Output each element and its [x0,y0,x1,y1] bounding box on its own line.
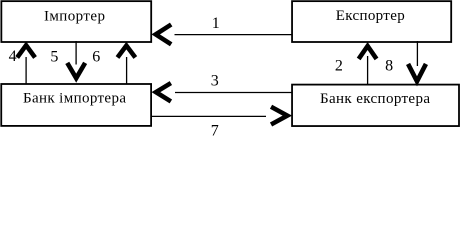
wire arrow 5 shaft (Імпортер down to Банк імпортера) [75,41,77,65]
arrowhead 3 chevron [156,83,171,101]
arrowhead 1 chevron [156,25,171,45]
box Банк експортера [292,85,459,126]
arrowhead 5 chevron [67,63,85,78]
svg-text:Експортер: Експортер [336,8,405,24]
wire arrow 6 shaft (Банк імпортера up to Імпортер) [126,57,128,85]
svg-text:6: 6 [92,49,100,66]
wire arrow 3 shaft (Банк експортера to Банк імпортера) [175,92,292,94]
svg-text:Банк експортера: Банк експортера [320,91,430,107]
arrowhead 2 chevron [359,46,377,59]
arrowhead 7 chevron [271,107,287,125]
arrowhead 8 chevron [408,64,426,81]
svg-text:4: 4 [9,48,17,65]
arrowhead 4 chevron [17,45,35,57]
svg-text:1: 1 [212,15,220,32]
box Імпортер [1,1,151,42]
wire arrow 7 shaft (Банк імпортера to Банк експортера) [152,115,266,117]
svg-text:Імпортер: Імпортер [44,8,105,24]
svg-text:7: 7 [211,122,219,139]
svg-text:8: 8 [385,57,393,74]
arrowhead 6 chevron [117,46,135,58]
svg-text:2: 2 [335,57,343,74]
svg-text:Банк імпортера: Банк імпортера [23,91,126,107]
svg-text:5: 5 [50,49,58,66]
box Банк імпортера [1,84,151,126]
box Експортер [292,1,451,42]
wire arrow 1 shaft (Експортер to Імпортер) [175,34,293,36]
svg-text:3: 3 [211,73,219,90]
wire arrow 2 shaft (Банк експортера up to Експортер) [367,56,369,85]
wire arrow 8 shaft (Експортер down to Банк експортера) [416,41,418,66]
wire arrow 4 shaft (Банк імпортера up to Імпортер) [25,57,27,85]
